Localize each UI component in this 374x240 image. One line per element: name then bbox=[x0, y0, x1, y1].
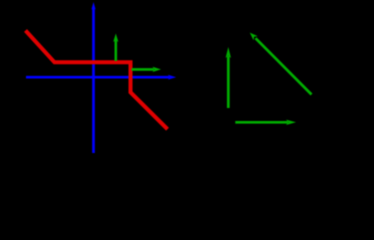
green up arrow (right diagram) bbox=[226, 47, 231, 108]
green right arrow (right diagram) bbox=[235, 120, 296, 125]
green up arrow (left diagram) bbox=[113, 34, 118, 62]
y-axis (blue vertical with up arrow) bbox=[91, 2, 95, 153]
x-axis (blue horizontal with right arrow) bbox=[26, 75, 176, 80]
red curve (piecewise characteristic) bbox=[26, 31, 168, 130]
green right arrow (left diagram) bbox=[132, 67, 162, 72]
green diagonal arrow pointing up-left (right diagram) bbox=[250, 33, 312, 95]
